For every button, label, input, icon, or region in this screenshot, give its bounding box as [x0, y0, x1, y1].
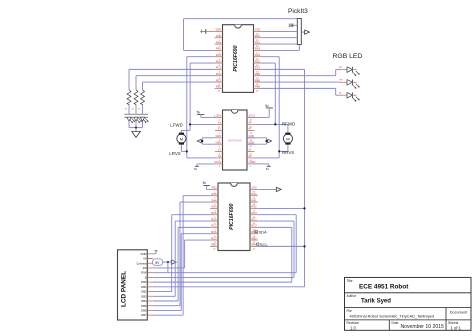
- U2 left pin 6 2Y: [215, 149, 223, 156]
- junction RFWD: [274, 123, 276, 125]
- power 5V at U2 VCC1: [247, 104, 273, 118]
- svg-text:RB5: RB5: [255, 78, 261, 82]
- U2 right pin 12 GND: [247, 142, 255, 149]
- motor M1 left: [177, 130, 186, 151]
- LCD pin DB7: [141, 313, 153, 317]
- U3 right pin 18 RA1: [250, 198, 258, 206]
- IC body U3: [218, 183, 250, 251]
- LED D6 RGB BL: [339, 92, 360, 101]
- output arrow port at PickIt3: [301, 30, 309, 34]
- svg-text:Author: Author: [347, 294, 358, 298]
- svg-text:RB7: RB7: [216, 85, 222, 89]
- U1 left pin 3 RA4: [215, 40, 223, 48]
- svg-text:VCC2: VCC2: [214, 161, 221, 164]
- U2 right pin 13 GND: [247, 135, 255, 142]
- wire U3 RC4 to LCD DB3: [153, 221, 210, 296]
- wire right margin down to LCD DB1: [153, 246, 305, 287]
- U3 right pin 14 RC2: [250, 224, 258, 232]
- junction RRVS: [278, 150, 280, 152]
- wire U2 3A: [255, 157, 280, 159]
- wire U1 RB5 to LED green: [262, 81, 339, 83]
- resistor R2: [132, 90, 139, 111]
- wire LED common rail: [129, 127, 143, 129]
- svg-text:RC3: RC3: [216, 66, 222, 70]
- svg-text:DB5: DB5: [141, 304, 147, 308]
- title block Author row: [347, 294, 392, 305]
- U2 left pin 2 1A: [215, 122, 223, 129]
- wire LRVS vertical from U1 RC5: [187, 57, 215, 158]
- svg-text:VDD: VDD: [211, 186, 217, 190]
- connector jack at U1 pin 1: [200, 29, 214, 34]
- svg-text:RC4: RC4: [216, 59, 222, 63]
- svg-text:DB6: DB6: [141, 308, 147, 312]
- resistor R3: [138, 90, 145, 111]
- svg-text:RD: RD: [339, 67, 343, 69]
- ground port arrow right of U2: [247, 138, 272, 144]
- U3 left pin 7 RC3: [210, 224, 218, 232]
- U2 left pin 7 2A: [215, 155, 223, 162]
- wire U1 RB6 to LED blue: [262, 88, 339, 95]
- ground tick at LCD GND: [153, 251, 158, 254]
- arrow port at LCD 5V: [171, 260, 176, 265]
- svg-text:RA4: RA4: [216, 40, 222, 44]
- LED D2 left: [134, 105, 142, 127]
- wire U1 RA0 to PickIt3: [262, 37, 298, 39]
- wire U1 RC2 down right margin: [262, 69, 305, 246]
- svg-text:RA3: RA3: [216, 47, 222, 51]
- svg-text:5v: 5v: [197, 110, 201, 114]
- svg-text:ECE 4951 Robot: ECE 4951 Robot: [359, 283, 409, 290]
- svg-text:GND: GND: [141, 252, 147, 256]
- svg-text:Document: Document: [450, 311, 468, 315]
- svg-text:RC6: RC6: [216, 72, 222, 76]
- svg-text:File: File: [347, 309, 352, 313]
- svg-text:1,2EN: 1,2EN: [214, 115, 221, 118]
- U1 left pin 9 RC7: [215, 78, 223, 86]
- U2 right pin 11 3Y: [247, 149, 255, 156]
- wire U3 RA5 to LCD DB7: [153, 196, 210, 315]
- U3 left pin 8 RC6: [210, 230, 218, 238]
- LED bar rail top: [124, 113, 148, 115]
- U2 right pin 16 VCC1: [247, 115, 256, 122]
- svg-text:M: M: [286, 136, 289, 141]
- svg-text:RA5: RA5: [211, 192, 217, 196]
- svg-text:RC3: RC3: [211, 224, 217, 228]
- U1 right pin 17 RA2: [254, 47, 262, 55]
- wire motor2 bottom: [279, 150, 288, 152]
- title block frame: [345, 277, 472, 330]
- wire U1 RC3 to resistor R1: [129, 69, 215, 89]
- svg-text:RA2: RA2: [255, 47, 261, 51]
- U1 left pin 5 RC5: [215, 53, 223, 61]
- svg-text:4A: 4A: [249, 122, 252, 125]
- wire RFWD vertical from U1 RC1: [262, 63, 276, 124]
- IC body U1: [223, 25, 254, 93]
- U1 right pin 18 RA1: [254, 40, 262, 48]
- svg-text:GND: GND: [215, 142, 221, 145]
- svg-text:RC4: RC4: [211, 217, 217, 221]
- wire LFWD vertical from U1 RC4: [190, 63, 214, 130]
- U3 right pin 12 RB5: [250, 236, 258, 244]
- wire motor1 bottom: [181, 150, 186, 152]
- title block Title row: [347, 279, 410, 291]
- LCD pin Contrast: [136, 261, 152, 265]
- svg-text:RC7: RC7: [211, 236, 217, 240]
- U3 right pin 13 RB4: [250, 230, 258, 238]
- U1 left pin 7 RC3: [215, 66, 223, 74]
- LCD pin DB6: [141, 308, 153, 312]
- power 5V at U3 VDD: [203, 181, 210, 189]
- svg-text:Title: Title: [347, 279, 353, 283]
- LCD pin E: [145, 275, 153, 279]
- power 5V at U2 VCC2: [194, 164, 215, 171]
- wire U1 RA2 to PickIt3: [262, 45, 300, 51]
- node SDA: [255, 229, 267, 234]
- U2 right pin 15 4A: [247, 122, 255, 129]
- svg-text:VSS: VSS: [255, 28, 260, 32]
- svg-text:RB7: RB7: [211, 243, 217, 247]
- LED D1 left: [127, 105, 135, 127]
- svg-text:1.0: 1.0: [350, 325, 356, 330]
- wire top VPP net: [184, 19, 298, 51]
- svg-text:DB3: DB3: [141, 294, 147, 298]
- svg-text:5V: 5V: [155, 261, 160, 265]
- svg-text:PickIt3: PickIt3: [288, 8, 308, 15]
- wire U1 RA1 to PickIt3: [262, 43, 298, 45]
- wire U3 RB6 SCL row: [258, 245, 305, 247]
- U1 right pin 20 VSS: [254, 28, 262, 36]
- svg-text:GN: GN: [339, 80, 343, 82]
- svg-text:RB6: RB6: [255, 85, 261, 89]
- svg-text:November 10 2015: November 10 2015: [401, 324, 444, 330]
- LCD pin DB0: [141, 280, 153, 284]
- U2 right pin 10 3A: [247, 155, 255, 162]
- U1 right pin 15 RC1: [254, 59, 262, 67]
- LED D4 RGB RD: [339, 67, 360, 76]
- U1 right pin 11 RB6: [254, 85, 262, 93]
- terminal pin inside PickIt3: [289, 23, 297, 27]
- title block Revision cell: [347, 321, 360, 330]
- LCD pin 5V: [143, 257, 153, 261]
- power 5V at U2 3,4EN: [255, 164, 271, 171]
- svg-text:5v: 5v: [203, 181, 207, 185]
- svg-text:PIC16F690: PIC16F690: [233, 45, 239, 71]
- wire U1 RC6 to resistor R2: [136, 76, 215, 90]
- U1 right pin 13 RB4: [254, 72, 262, 80]
- power 5V at U2 pin1: [197, 110, 215, 117]
- U1 right pin 14 RC2: [254, 66, 262, 74]
- connector J1 PickIt3 header: [297, 19, 301, 45]
- U3 left pin 3 RA4: [210, 198, 218, 206]
- node SCL: [257, 242, 269, 247]
- wire U3 RC1 wrap to LCD E: [153, 221, 294, 277]
- wire U2 2A: [187, 157, 215, 159]
- U1 left pin 2 RA5: [215, 34, 223, 42]
- LED D3 left: [140, 105, 148, 127]
- svg-text:VDD: VDD: [216, 28, 222, 32]
- svg-text:R/W: R/W: [141, 271, 147, 275]
- junction LFWD: [189, 123, 191, 125]
- U3 left pin 2 RA5: [210, 192, 218, 200]
- svg-text:Date: Date: [392, 321, 399, 325]
- U3 right pin 19 RA0: [250, 192, 258, 200]
- U3 left pin 10 RB7: [210, 243, 218, 251]
- LCD pin RS: [143, 266, 153, 270]
- svg-text:RA5: RA5: [216, 34, 222, 38]
- LCD pin DB2: [141, 290, 153, 294]
- U2 right pin 14 4Y: [247, 128, 255, 135]
- U1 left pin 6 RC4: [215, 59, 223, 67]
- U3 right pin 15 RC1: [250, 217, 258, 225]
- svg-text:LFWD: LFWD: [170, 123, 182, 128]
- U2 left pin 1 1,2EN: [214, 115, 222, 122]
- LCD PANEL box: [118, 250, 148, 320]
- LCD pin R/W: [141, 271, 153, 275]
- svg-text:RGB LED: RGB LED: [333, 53, 363, 60]
- svg-text:SDA: SDA: [258, 229, 267, 234]
- resistor R1: [125, 90, 132, 111]
- svg-text:RC2: RC2: [255, 66, 261, 70]
- wire U1 RB4 to LED red: [262, 70, 339, 76]
- junction LRVS: [186, 150, 188, 152]
- IC body U2 SN754410 motor driver: [223, 110, 248, 170]
- svg-text:RC0: RC0: [252, 211, 258, 215]
- wire U3 RC7 to LCD RS: [153, 240, 210, 268]
- U3 left pin 6 RC4: [210, 217, 218, 225]
- svg-text:RC1: RC1: [255, 59, 261, 63]
- svg-text:RA3: RA3: [211, 205, 217, 209]
- wire 5V to RW row: [167, 262, 169, 273]
- LCD pin DB5: [141, 304, 153, 308]
- U1 right pin 19 RA0: [254, 34, 262, 42]
- ground port arrow left of U2: [197, 138, 215, 144]
- wire U1 VSS to PickIt3: [262, 30, 298, 32]
- svg-text:RC1: RC1: [252, 217, 258, 221]
- svg-text:RA0: RA0: [252, 192, 258, 196]
- junction at 5V bubble: [167, 261, 169, 263]
- wire U2 4A to motor2 top: [255, 123, 288, 125]
- svg-text:RS: RS: [143, 266, 147, 270]
- U3 left pin 5 RC5: [210, 211, 218, 219]
- junction RA2 margin: [303, 207, 305, 209]
- svg-text:RA2: RA2: [252, 205, 258, 209]
- LCD pin DB4: [141, 299, 153, 303]
- svg-text:4Y: 4Y: [249, 128, 252, 131]
- wire U2 1A: [190, 123, 215, 125]
- U2 left pin 3 1Y: [215, 128, 223, 135]
- U3 right pin 16 RC0: [250, 211, 258, 219]
- svg-text:DB2: DB2: [141, 290, 147, 294]
- wire U3 RC6 to LCD DB6: [153, 234, 210, 311]
- power bubble 5V at LCD: [147, 259, 171, 266]
- svg-text:3A: 3A: [249, 155, 252, 158]
- wire motor1 top: [181, 129, 190, 131]
- svg-text:Tarik Syed: Tarik Syed: [361, 299, 391, 305]
- svg-text:LRVS: LRVS: [169, 151, 180, 156]
- LCD pin GND: [141, 252, 153, 256]
- svg-text:3Y: 3Y: [249, 149, 252, 152]
- svg-text:RB4: RB4: [255, 72, 261, 76]
- U2 left pin 8 VCC2: [214, 161, 222, 168]
- svg-text:2Y: 2Y: [218, 149, 221, 152]
- wire U3 RC3 to LCD DB4: [153, 227, 210, 301]
- U3 right pin 17 RA2: [250, 205, 258, 213]
- U1 left pin 1 VDD: [215, 28, 223, 36]
- svg-text:PIC16F690: PIC16F690: [229, 204, 235, 230]
- svg-text:RA0: RA0: [255, 34, 261, 38]
- U2 right pin 9 3,4EN: [247, 161, 256, 168]
- motor M2 right: [283, 124, 292, 151]
- U2 left pin 4 GND: [215, 135, 223, 142]
- U2 left pin 5 GND: [215, 142, 223, 149]
- svg-text:4951Final Robot Schematic_Tiny: 4951Final Robot Schematic_TinyCAD_TarikS…: [350, 313, 435, 318]
- svg-text:1Y: 1Y: [218, 128, 221, 131]
- wire U3 RC0 wrap to LCD RW: [153, 215, 296, 273]
- svg-text:SCL: SCL: [260, 242, 269, 247]
- U1 left pin 4 RA3: [215, 47, 223, 55]
- svg-text:RA4: RA4: [211, 198, 217, 202]
- U3 left pin 1 VDD: [210, 186, 218, 194]
- svg-text:1A: 1A: [218, 122, 221, 125]
- LCD pin DB1: [141, 285, 153, 289]
- svg-text:5v: 5v: [265, 104, 269, 108]
- title block Date cell: [392, 321, 444, 330]
- svg-text:SN754410: SN754410: [228, 138, 243, 142]
- wire U1 RC7 to resistor R3: [143, 82, 215, 90]
- LCD pin DB3: [141, 294, 153, 298]
- output arrow port at U3 VSS: [258, 187, 281, 191]
- svg-text:RA1: RA1: [252, 198, 258, 202]
- U1 right pin 12 RB5: [254, 78, 262, 86]
- svg-text:RC6: RC6: [211, 230, 217, 234]
- svg-text:LCD PANEL: LCD PANEL: [121, 271, 128, 307]
- U1 right pin 16 RC0: [254, 53, 262, 61]
- svg-text:RA1: RA1: [255, 40, 261, 44]
- svg-text:RFWD: RFWD: [282, 121, 295, 126]
- wire U3 RC2 wrap to LCD DB0: [153, 227, 292, 282]
- title block Sheets cell: [448, 321, 462, 330]
- svg-text:DB7: DB7: [141, 313, 147, 317]
- svg-text:Contrast: Contrast: [136, 261, 146, 265]
- svg-text:VSS: VSS: [252, 186, 257, 190]
- svg-text:RC7: RC7: [216, 78, 222, 82]
- U3 right pin 11 RB6: [250, 243, 258, 251]
- svg-text:DB1: DB1: [141, 285, 147, 289]
- wire RRVS vertical from U1 RC0: [262, 57, 280, 158]
- svg-text:RC5: RC5: [216, 53, 222, 57]
- svg-text:DB0: DB0: [141, 280, 147, 284]
- svg-text:RC0: RC0: [255, 53, 261, 57]
- U3 left pin 9 RC7: [210, 236, 218, 244]
- U3 right pin 20 VSS: [250, 186, 258, 194]
- U3 left pin 4 RA3: [210, 205, 218, 213]
- junction LED rail: [135, 127, 137, 129]
- U1 left pin 8 RC6: [215, 72, 223, 80]
- U1 left pin 10 RB7: [215, 85, 223, 93]
- svg-text:RC2: RC2: [252, 224, 258, 228]
- wire U3 RA2 to right margin: [258, 207, 305, 209]
- junction SCL margin: [303, 245, 305, 247]
- svg-text:GND: GND: [215, 135, 221, 138]
- svg-text:DB4: DB4: [141, 299, 147, 303]
- ground symbol below LEDs: [132, 128, 141, 138]
- LED D5 RGB GN: [339, 80, 360, 89]
- svg-text:M: M: [180, 136, 183, 141]
- LED bar rail bottom: [124, 116, 148, 118]
- svg-text:RC5: RC5: [211, 211, 217, 215]
- title block File row: [347, 309, 435, 319]
- svg-text:5V: 5V: [143, 257, 146, 261]
- svg-text:E: E: [145, 275, 147, 279]
- wire U3 RC5 to LCD DB2: [153, 215, 210, 292]
- wire U3 RA4 to LCD DB5: [153, 202, 210, 306]
- svg-text:2A: 2A: [218, 155, 221, 158]
- svg-text:RB5: RB5: [252, 236, 258, 240]
- svg-text:1 of 1: 1 of 1: [451, 325, 462, 330]
